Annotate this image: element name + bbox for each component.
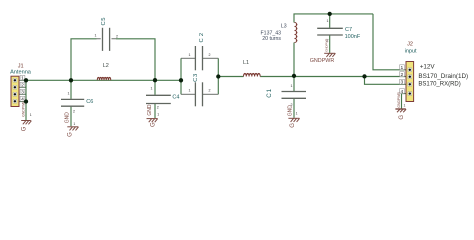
wire main right horizontal net [218,76,406,78]
svg-text:C2: C2 [199,31,205,43]
wire J1 ground drop [25,102,27,121]
svg-text:4: 4 [401,89,404,95]
wire J1 pin tie vertical [25,80,27,101]
ground GND below C1 [288,118,299,122]
junction dot block right rail [216,74,220,78]
svg-text:1: 1 [296,111,298,115]
wire C1 bottom lead to ground [293,99,295,118]
capacitor C4 [146,86,179,109]
wire C6 bottom lead to ground [70,107,72,127]
wire J1 pin2 stub [16,86,26,88]
ground GND below C6 [67,127,78,131]
svg-text:BS170_RX(RD): BS170_RX(RD) [418,82,460,88]
wire C3 left lead [181,93,195,95]
svg-text:2: 2 [157,105,159,109]
wire main left horizontal net [16,79,181,81]
svg-text:1: 1 [189,88,191,92]
junction dot J2 pin2/pin3 [362,74,366,78]
capacitor C2 [189,31,211,71]
svg-text:input: input [405,49,417,55]
svg-text:G: G [22,126,28,131]
wire L3 bottom lead vertical [293,43,295,76]
svg-text:GNDPWR: GNDPWR [310,58,335,64]
svg-text:100nF: 100nF [345,34,361,40]
svg-text:L1: L1 [243,60,249,66]
wire C5 loop left and top [71,39,97,81]
ground GNDPWR below J1 [21,121,31,125]
svg-text:GNDPWR: GNDPWR [397,92,401,108]
svg-text:C1: C1 [266,88,273,98]
svg-text:1: 1 [327,19,329,23]
svg-text:C4: C4 [172,95,179,101]
svg-text:C3: C3 [193,73,199,82]
capacitor C3 [189,73,211,106]
junction dot C7 top rail [328,12,332,16]
svg-text:1: 1 [68,91,70,95]
svg-text:BS170_Drain(1D): BS170_Drain(1D) [418,73,468,80]
svg-text:GND: GND [287,105,293,117]
svg-text:2: 2 [73,109,75,113]
wire L3 top lead and top rail [294,14,373,23]
inductor L2 [97,63,110,80]
wire C7 top lead [329,14,331,28]
svg-text:GNDPWR: GNDPWR [325,39,329,52]
svg-text:1: 1 [151,86,153,90]
svg-text:+12V: +12V [420,64,436,71]
capacitor C6 [61,91,93,113]
svg-text:L3: L3 [281,24,287,30]
wire C7 bottom lead to GNDPWR [329,35,331,53]
junction dot J1 pin4 [24,99,28,103]
svg-text:20 turns: 20 turns [262,36,281,42]
svg-text:2: 2 [209,88,211,92]
svg-text:J2: J2 [407,41,413,47]
svg-text:G: G [290,123,296,128]
junction dot node C5/C4 tap [153,78,157,82]
svg-text:2: 2 [116,35,118,39]
wire C4 bottom lead to ground [154,104,156,118]
wire C2 left lead [181,57,195,59]
svg-text:1: 1 [291,84,293,88]
svg-text:3: 3 [401,80,404,86]
wire block right rail [217,58,219,94]
svg-text:2: 2 [21,83,24,89]
svg-text:G: G [68,132,74,137]
svg-text:3: 3 [21,90,24,96]
wire C2 right lead [203,57,219,59]
svg-text:1: 1 [403,103,405,107]
capacitor C5 [95,17,119,51]
svg-text:1: 1 [95,34,97,38]
svg-text:2: 2 [209,53,211,57]
connector J1 [10,64,32,107]
ground GNDPWR below J2 [395,109,406,112]
connector J2 [400,41,417,101]
svg-text:Antenna: Antenna [10,70,32,76]
wire C4 top lead [154,80,156,95]
svg-text:C5: C5 [101,17,107,26]
svg-text:L2: L2 [103,63,109,69]
wire block left rail [180,58,182,94]
wire C6 top lead [70,80,72,99]
junction dot L3/C1 node [292,74,296,78]
capacitor C7 [317,19,361,42]
wire +12V run to J2 pin1 [373,14,406,70]
svg-text:1: 1 [30,113,32,117]
svg-text:1: 1 [189,53,191,57]
svg-text:1: 1 [401,65,404,71]
ground GNDPWR below C7 [324,53,335,57]
svg-text:GND: GND [147,104,153,116]
svg-text:C7: C7 [345,27,352,33]
svg-text:C6: C6 [86,99,93,105]
svg-text:G: G [150,122,156,127]
svg-text:1: 1 [157,113,159,117]
junction dot J1 pin1 [24,78,28,82]
junction dot node C5/C6 tap [69,78,73,82]
wire J2 pin4 to ground [402,94,407,109]
ground GND below C4 [147,119,158,123]
svg-text:G: G [399,115,405,120]
wire J2 pin3 link [365,77,407,85]
svg-text:1: 1 [73,122,75,126]
svg-text:1: 1 [21,76,24,82]
svg-text:2: 2 [401,72,404,78]
wire J1 pin4 stub [16,101,26,103]
wire C3 right lead [203,93,219,95]
inductor L1 [243,60,260,77]
svg-text:GND: GND [65,112,71,124]
wire J1 pin3 stub [16,93,26,95]
capacitor C1 [266,84,306,107]
wire C1 top lead [293,76,295,91]
transformer L3 winding [261,23,298,43]
junction dot block left rail [179,78,183,82]
wire C5 loop right and down [116,39,155,80]
